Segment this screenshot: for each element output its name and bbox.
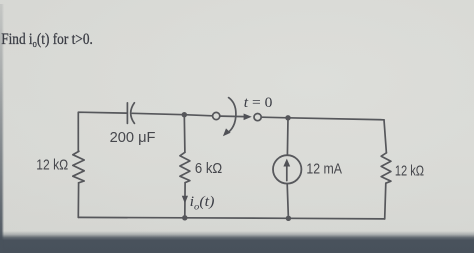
resistor R2 6 kOhm zigzag xyxy=(180,152,190,182)
switch S1 blade arrow xyxy=(221,114,252,121)
svg-text:12 kΩ: 12 kΩ xyxy=(36,157,68,174)
node A junction dot xyxy=(182,112,187,117)
capacitor C1 left plate xyxy=(126,103,128,124)
capacitor C1 right curved plate xyxy=(131,103,135,124)
switch S1 right terminal circle xyxy=(254,114,261,121)
wire right branch lower xyxy=(385,183,386,219)
svg-text:12 kΩ: 12 kΩ xyxy=(395,163,424,180)
junction dot bottom middle branch xyxy=(182,215,187,220)
bottom wire xyxy=(78,217,384,219)
switch S1 left terminal circle xyxy=(213,112,220,119)
resistor R3 12 kOhm zigzag xyxy=(381,153,391,183)
wire switch to node B to top-right corner xyxy=(262,117,384,120)
svg-text:t = 0: t = 0 xyxy=(244,95,273,111)
wire middle branch upper xyxy=(183,115,186,153)
node B junction dot xyxy=(285,115,290,120)
wire middle branch lower with io arrow xyxy=(182,183,188,218)
wire capacitor to node A xyxy=(132,113,184,114)
svg-text:12 mA: 12 mA xyxy=(306,161,342,178)
problem statement text xyxy=(1,31,93,50)
wire node A to switch xyxy=(184,115,212,116)
wire right branch upper xyxy=(384,120,386,153)
svg-text:io(t): io(t) xyxy=(190,194,215,213)
svg-text:Find io(t) for t>0.: Find io(t) for t>0. xyxy=(1,31,93,50)
current source I1 circle xyxy=(273,155,301,183)
wire source branch lower xyxy=(287,184,288,219)
svg-text:200 μF: 200 μF xyxy=(110,129,156,146)
switch S1 motion arc xyxy=(223,98,236,137)
current source I1 arrow xyxy=(283,159,290,181)
svg-text:6 kΩ: 6 kΩ xyxy=(195,160,222,177)
junction dot bottom source branch xyxy=(286,216,291,221)
wire top-left segment (corner to capacitor) xyxy=(78,112,126,151)
wire left branch lower xyxy=(77,183,79,218)
wire source branch upper xyxy=(286,118,289,155)
resistor R1 12 kOhm zigzag xyxy=(73,151,84,183)
